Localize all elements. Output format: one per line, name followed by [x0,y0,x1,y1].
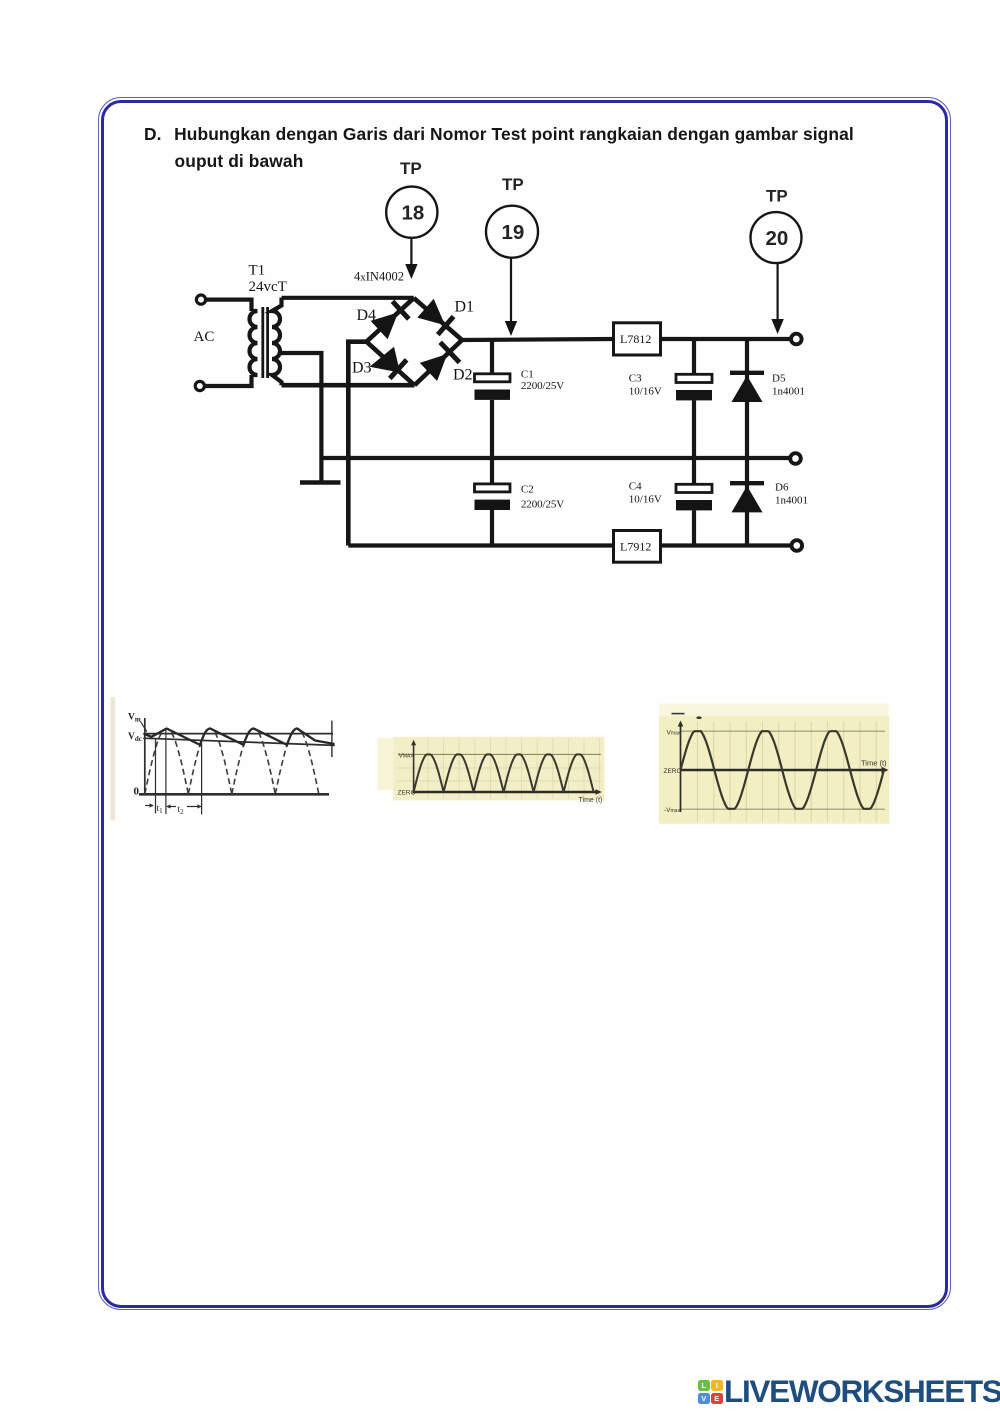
svg-text:C2: C2 [521,484,534,496]
label TP (20) [766,187,788,206]
test point TP19 arrow [505,258,517,336]
svg-text:2200/25V: 2200/25V [521,499,564,511]
capacitor C2 wires [490,458,494,546]
ground [300,480,341,485]
label 4xIN4002 [354,270,404,284]
svg-text:0: 0 [134,786,140,798]
test point TP18 circle [386,187,437,238]
capacitor C1 wires [490,339,494,458]
output terminal V+ [791,334,802,345]
diode D4 (bridge) [371,301,409,339]
bottom rail wire to L7912 [348,543,613,547]
svg-text:t1: t1 [157,804,164,815]
AC input terminal top [196,295,205,304]
label C4 value [629,481,662,506]
capacitor C3 [676,374,712,400]
label C1 value [521,369,564,393]
label D3 [352,360,372,377]
diode D1 (bridge) [417,299,453,335]
label D5 value [772,373,805,398]
svg-text:C4: C4 [629,481,642,493]
regulator U2 L7912 [614,531,661,563]
wire bridge right corner to L7812 (top rail) [462,339,614,340]
label D1 [455,299,475,316]
label L7812 [620,332,651,346]
test point TP20 circle [751,212,802,263]
diode D2 (bridge) [420,342,460,381]
svg-text:ZERO: ZERO [398,790,416,797]
label C2 value [521,484,564,511]
svg-text:L7812: L7812 [620,332,651,346]
svg-text:D3: D3 [352,360,372,377]
wire bridge side left-bottom (D3 branch) [367,342,415,386]
test point TP19 circle [486,206,538,258]
label D4 [357,307,377,324]
svg-text:Time (t): Time (t) [861,759,887,768]
svg-text:D1: D1 [455,299,475,316]
wire L7812 output to terminal [661,337,792,341]
svg-text:4xIN4002: 4xIN4002 [354,270,404,284]
svg-text:-Vmax: -Vmax [664,807,680,814]
label T1 24vcT [249,263,287,296]
svg-text:AC: AC [194,329,215,345]
capacitor C2 [475,484,511,510]
blue rounded double border [98,97,951,1310]
svg-text:L7912: L7912 [620,540,651,554]
label L7912 [620,540,651,554]
svg-text:20: 20 [766,227,789,250]
svg-text:D4: D4 [357,307,377,324]
label TP (18) [400,159,422,178]
svg-text:ZERO: ZERO [664,768,682,775]
waveform figure 1: ripple [111,697,335,820]
capacitor C4 [676,484,712,510]
test point TP18 arrow [405,238,417,279]
diode D6 wire [745,458,749,546]
transformer T1 primary winding [250,311,258,375]
wire AC bottom to primary [204,375,251,386]
output terminal 0V [790,453,801,464]
regulator U1 L7812 [614,323,661,355]
svg-text:VMAX: VMAX [399,753,415,760]
wire bridge side top-right (D1 branch) [414,298,462,340]
svg-text:2200/25V: 2200/25V [521,380,564,392]
diode D6 [730,483,764,512]
svg-text:D2: D2 [453,367,473,384]
output terminal V- [792,540,803,551]
svg-text:T1: T1 [249,263,266,279]
svg-text:Vdc: Vdc [128,732,142,743]
svg-text:10/16V: 10/16V [629,386,662,398]
liveworksheets logo [696,1378,698,1406]
svg-text:1n4001: 1n4001 [772,386,805,398]
middle rail wire (0V) [321,456,790,460]
wire center tap [279,353,321,481]
wire AC top to primary [206,300,252,311]
svg-text:1n4001: 1n4001 [775,495,808,507]
label C3 value [629,373,662,398]
svg-text:19: 19 [502,221,525,244]
title [144,121,884,174]
svg-text:D6: D6 [775,482,789,494]
label 18 [402,202,425,225]
waveform figure 2: full-wave rectified [378,737,605,804]
label 19 [502,221,525,244]
label 20 [766,227,789,250]
transformer T1 secondary winding [272,298,282,386]
svg-text:10/16V: 10/16V [629,494,662,506]
svg-text:18: 18 [402,202,425,225]
test point TP20 arrow [771,263,783,334]
diode D5 wire [745,339,749,458]
label AC [194,329,215,345]
svg-text:TP: TP [400,159,422,178]
diode D5 [730,373,764,402]
svg-text:C1: C1 [521,369,534,381]
capacitor C1 [475,374,511,400]
wire secondary bottom to bridge bottom corner [282,383,415,388]
label D6 value [775,482,808,507]
capacitor C4 wires [692,458,696,546]
svg-text:C3: C3 [629,373,642,385]
svg-text:TP: TP [502,175,524,194]
svg-text:Vmax: Vmax [667,730,681,737]
capacitor C3 wires [692,339,696,458]
transformer T1 core [263,307,268,378]
diode D3 (bridge) [370,347,407,379]
svg-text:t2: t2 [178,805,185,816]
wire bridge side bottom-right (D2 branch) [415,340,463,385]
label D2 [453,367,473,384]
svg-text:Time (t): Time (t) [579,797,603,804]
svg-text:24vcT: 24vcT [249,279,287,295]
label TP (19) [502,175,524,194]
waveform figure 3: sine [659,704,890,824]
svg-text:Vm: Vm [128,713,141,724]
AC input terminal bottom [195,381,204,390]
svg-text:TP: TP [766,187,788,206]
wire L7912 to terminal [661,543,792,547]
wire bridge side left-top (D4 branch) [367,298,414,342]
wire secondary top to bridge (node TP19 rail) [282,296,414,300]
wire bridge left corner to bottom rail [348,342,366,546]
svg-text:D5: D5 [772,373,786,385]
